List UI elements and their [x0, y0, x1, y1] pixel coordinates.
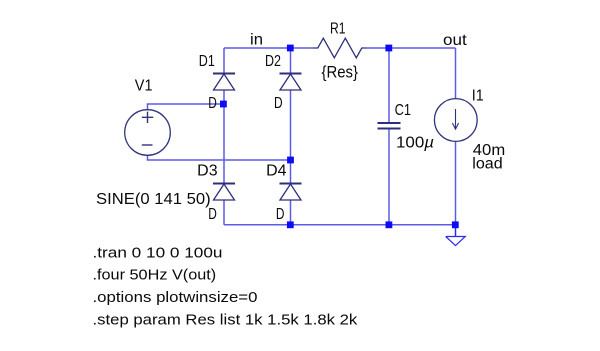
junction node in at D2 top: [287, 45, 294, 52]
svg-text:.step param Res list 1k 1.5k 1: .step param Res list 1k 1.5k 1.8k 2k: [93, 312, 358, 329]
wire D4 anode lead down to bottom rail: [290, 200, 292, 225]
svg-text:SINE(0 141 50): SINE(0 141 50): [96, 191, 211, 208]
wire D1 anode through node D down to D3 cathode: [223, 90, 225, 184]
diode D1 cathode bar: [213, 73, 235, 75]
I1 arrow head: [452, 123, 458, 129]
svg-text:C1: C1: [395, 102, 411, 119]
capacitor C1 bottom plate: [378, 128, 401, 130]
wire ground stub: [455, 225, 457, 237]
wire V1 plus terminal stub: [147, 104, 149, 110]
diode D4 cathode bar: [280, 183, 302, 185]
diode D3 cathode bar: [213, 183, 235, 185]
V1 plus sign: [142, 112, 154, 123]
wire V1 plus rail to node D: [147, 103, 224, 105]
capacitor C1 top plate: [378, 122, 401, 124]
svg-text:V1: V1: [135, 78, 153, 95]
wire V1 minus terminal stub: [147, 155, 149, 160]
wire D1 cathode lead up to node in: [223, 48, 225, 74]
svg-text:100µ: 100µ: [396, 135, 434, 152]
diode D2 triangle: [280, 74, 301, 90]
svg-text:D: D: [208, 206, 217, 223]
V1 minus sign: [142, 144, 153, 146]
svg-text:.options plotwinsize=0: .options plotwinsize=0: [93, 289, 258, 306]
wire out corner down to I1 top: [455, 48, 457, 99]
junction D4 bottom on rail: [287, 221, 294, 228]
voltage source V1 circle: [125, 110, 171, 156]
svg-text:.tran 0 10 0 100u: .tran 0 10 0 100u: [93, 244, 223, 261]
wire out node down to C1 top plate: [388, 48, 390, 123]
I1 arrow shaft: [455, 109, 457, 129]
wire D2 anode through V1 minus node down to D4 cathode: [290, 90, 292, 184]
junction V1 minus at D4 column: [287, 157, 294, 164]
current source I1 circle: [434, 99, 477, 142]
junction C1 bottom on rail: [386, 221, 393, 228]
junction node D on V1 plus wire: [220, 101, 227, 108]
svg-text:D: D: [208, 95, 217, 112]
svg-text:load: load: [472, 156, 502, 173]
svg-text:I1: I1: [472, 88, 484, 105]
junction out node at C1 column: [385, 45, 392, 52]
svg-text:D: D: [274, 95, 283, 112]
svg-text:in: in: [250, 32, 263, 49]
diode D3 triangle: [214, 184, 235, 200]
wire bottom ground rail: [224, 224, 456, 226]
svg-text:D1: D1: [199, 53, 215, 70]
svg-text:{Res}: {Res}: [322, 62, 359, 81]
svg-text:out: out: [443, 32, 467, 49]
wire top rail from R1 to out corner: [367, 47, 456, 49]
wire I1 bottom down to rail: [455, 142, 457, 225]
wire C1 bottom plate down to rail: [388, 129, 390, 225]
svg-text:D4: D4: [266, 163, 287, 180]
wire D2 cathode lead: [290, 48, 292, 74]
svg-text:.four 50Hz V(out): .four 50Hz V(out): [93, 267, 217, 284]
svg-text:R1: R1: [330, 21, 346, 38]
junction ground on rail: [452, 221, 459, 228]
svg-text:D2: D2: [265, 53, 281, 70]
wire D3 anode lead down to bottom rail: [223, 200, 225, 225]
diode D1 triangle: [214, 74, 235, 90]
diode D2 cathode bar: [280, 73, 302, 75]
svg-text:D3: D3: [197, 163, 217, 180]
svg-text:D: D: [276, 206, 285, 223]
wire top rail from D1 to R1: [224, 47, 313, 49]
wire V1 minus rail to D4 column: [147, 159, 291, 161]
diode D4 triangle: [280, 184, 301, 200]
ground symbol: [446, 237, 466, 246]
resistor R1 zigzag: [313, 38, 367, 58]
